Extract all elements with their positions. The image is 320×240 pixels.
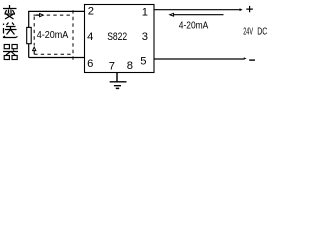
svg-text:24V: 24V: [243, 26, 253, 37]
svg-text:4-20mA: 4-20mA: [37, 30, 69, 41]
svg-text:S822: S822: [107, 31, 127, 43]
current loop dashed box top edge: [34, 14, 74, 16]
current loop dashed right edge: [72, 10, 74, 62]
svg-text:5: 5: [140, 55, 146, 67]
wire pin5 to - terminal: [154, 58, 245, 60]
current loop arrow up (left edge): [33, 47, 36, 51]
label 变送器 char 送: [3, 23, 18, 38]
svg-text:7: 7: [109, 61, 115, 73]
IC U1 S822 box: [85, 5, 155, 73]
minus sign: [249, 59, 255, 61]
current loop dashed bottom edge: [34, 53, 73, 55]
svg-text:8: 8: [127, 60, 133, 72]
label 变送器 (transmitter) char 变: [3, 5, 17, 19]
plus sign: [246, 6, 253, 12]
current loop arrow right (on top edge): [36, 14, 39, 16]
wire pin2 to transmitter (top left): [29, 11, 85, 57]
svg-text:4: 4: [87, 31, 93, 43]
wire pin6 to transmitter (bottom left): [29, 57, 85, 59]
current direction arrow 4-20mA (right side): [173, 14, 223, 16]
svg-text:6: 6: [87, 58, 93, 70]
label 变送器 char 器: [3, 45, 18, 60]
svg-text:DC: DC: [257, 26, 267, 37]
svg-text:1: 1: [142, 7, 148, 19]
wire pin1 to + terminal: [154, 9, 241, 11]
svg-text:3: 3: [142, 31, 148, 43]
arrowhead at + terminal end: [240, 8, 243, 11]
current loop dashed left edge: [33, 17, 35, 46]
svg-text:2: 2: [88, 6, 94, 18]
arrowhead at - terminal end: [244, 57, 247, 59]
svg-text:4-20mA: 4-20mA: [179, 21, 209, 32]
resistor (transmitter load): [27, 27, 32, 43]
ground symbol: [110, 73, 127, 89]
